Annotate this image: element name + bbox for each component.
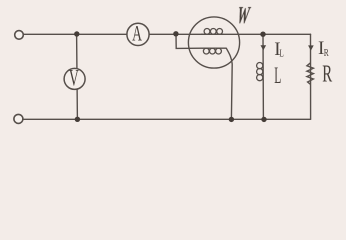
wire: wattmeter voltage-coil L-bend from node to coil <box>176 34 203 48</box>
svg-text:L: L <box>274 63 281 88</box>
junction node: bottom wire / inductor branch <box>261 117 266 122</box>
wire: inductor branch vertical <box>262 34 264 119</box>
inductor L coil loops <box>257 63 263 81</box>
resistor R zigzag <box>307 63 314 85</box>
junction node: top wire / inductor branch <box>260 32 265 37</box>
current arrow I_R <box>308 45 314 50</box>
voltmeter V circle <box>64 68 85 89</box>
current arrow I_L <box>261 45 267 50</box>
wire: voltmeter vertical tap <box>76 34 79 119</box>
wire: voltage-coil right lead dropping to bottom line <box>226 48 232 119</box>
svg-text:L: L <box>279 48 283 59</box>
terminal: top-left input <box>15 31 24 40</box>
svg-text:R: R <box>322 61 332 87</box>
wire: top line from left terminal to R branch corner <box>24 33 311 35</box>
wattmeter W circle <box>188 17 239 68</box>
junction node: bottom wire / voltmeter <box>75 117 80 122</box>
wattmeter current coil (top, loops above line) <box>201 29 224 35</box>
wattmeter voltage coil (bottom, loops below line) <box>203 48 227 54</box>
svg-text:R: R <box>324 48 330 60</box>
junction node: bottom wire / voltage coil return <box>229 117 234 122</box>
svg-text:V: V <box>69 66 79 91</box>
terminal: bottom-left input <box>14 114 23 123</box>
junction node: top wire / wattmeter voltage coil <box>173 31 178 36</box>
svg-text:A: A <box>132 21 142 45</box>
junction node: top wire / voltmeter <box>74 31 79 36</box>
wire: bottom line from left terminal to R branch corner <box>23 118 310 120</box>
wire: resistor branch vertical <box>310 34 312 119</box>
ammeter A circle <box>127 23 149 45</box>
